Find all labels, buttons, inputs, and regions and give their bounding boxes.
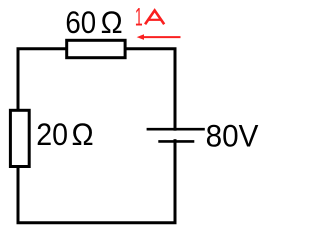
svg-text:Ω: Ω — [101, 4, 123, 40]
current arrow 1A shaft — [143, 36, 181, 38]
svg-text:20: 20 — [36, 116, 68, 152]
resistor R2 20ohm body — [10, 110, 29, 166]
svg-text:Ω: Ω — [71, 116, 93, 152]
battery V1 short plate — [158, 140, 194, 143]
battery V1 long plate — [147, 128, 205, 131]
label 1A current letter — [145, 10, 164, 24]
current arrow head — [137, 34, 144, 40]
svg-text:80V: 80V — [206, 118, 259, 154]
svg-text:60: 60 — [65, 4, 96, 40]
wire: outer circuit loop — [18, 49, 175, 223]
resistor R1 60ohm body — [67, 40, 125, 57]
svg-text:1: 1 — [135, 4, 143, 31]
wire: battery gap eraser — [170, 131, 180, 140]
